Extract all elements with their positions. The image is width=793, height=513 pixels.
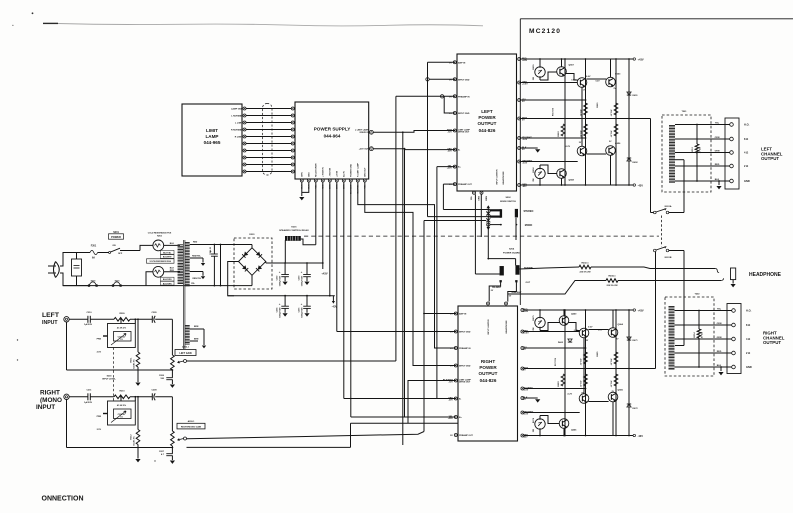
power supply board 044-964 <box>295 102 369 179</box>
capacitor C207 <box>166 453 172 455</box>
svg-text:Q660: Q660 <box>571 314 577 316</box>
filter capacitor C204 -rail <box>284 296 286 306</box>
svg-text:C204 47: C204 47 <box>118 335 127 338</box>
svg-text:D672: D672 <box>633 408 639 410</box>
limit lamp pin 8 <box>243 156 246 159</box>
fuse F201 <box>90 250 98 254</box>
right board pin PREAMP IN <box>454 347 457 350</box>
svg-text:+20 IN: +20 IN <box>337 170 339 177</box>
right board right pin ORN <box>521 330 524 333</box>
svg-text:R204-1: R204-1 <box>608 275 616 278</box>
capacitor C210 <box>87 316 89 323</box>
right gain pot A203-1 <box>171 431 175 446</box>
svg-text:.47 5W: .47 5W <box>610 358 613 366</box>
left power output board 044-826 <box>457 54 517 191</box>
wire R209 to C-coupling <box>130 318 152 320</box>
right diode D671 <box>627 337 631 340</box>
svg-text:MONO: MONO <box>525 224 533 227</box>
wire Q668-Q666 link <box>588 401 608 403</box>
wire -drive <box>521 161 578 163</box>
svg-text:C209 47: C209 47 <box>118 413 127 416</box>
svg-text:-0.6V: -0.6V <box>522 163 528 165</box>
svg-text:OUTPUT: OUTPUT <box>763 340 781 345</box>
svg-text:044-826: 044-826 <box>479 128 496 133</box>
svg-text:B-: B- <box>458 150 461 152</box>
svg-text:HEADPHONE: HEADPHONE <box>505 320 508 334</box>
wire right -drive <box>524 412 580 414</box>
svg-text:C206: C206 <box>159 375 165 377</box>
wire Q673 to Q668 column <box>583 338 585 394</box>
T201 tap GRN <box>675 152 730 154</box>
right input ground bus <box>187 446 351 448</box>
svg-text:+: + <box>279 270 281 274</box>
transformer low secondary winding <box>185 325 190 345</box>
svg-text:1μF/63V: 1μF/63V <box>84 324 93 326</box>
svg-text:Q658: Q658 <box>569 180 575 182</box>
wire right box input gnd <box>337 331 456 333</box>
wire relay coil left <box>284 240 286 263</box>
wire right feedback up to relay <box>655 252 657 369</box>
svg-text:.47 5W: .47 5W <box>580 358 583 366</box>
wire right box B+ <box>351 416 456 418</box>
power supply bottom pin 5 <box>328 179 331 182</box>
power supply bottom pin 9 <box>356 179 359 182</box>
svg-text:ONNECTION: ONNECTION <box>42 495 84 502</box>
transformer core <box>182 240 184 349</box>
power guard feed wires <box>475 273 499 275</box>
svg-text:S203: S203 <box>107 375 113 377</box>
wire +drive <box>521 82 578 84</box>
svg-text:-12V: -12V <box>448 382 453 384</box>
svg-text:POWER GND: POWER GND <box>351 163 353 177</box>
right terminal H.O. <box>732 309 736 313</box>
svg-text:OUT: OUT <box>526 282 531 284</box>
filter capacitor C203 +rail <box>306 263 308 274</box>
svg-text:41.9K 2%: 41.9K 2% <box>117 404 126 407</box>
svg-text:R683: R683 <box>558 381 560 387</box>
left terminal 2 Ω <box>730 164 734 168</box>
right diode D662 <box>568 339 572 342</box>
svg-text:POWER: POWER <box>479 365 497 370</box>
left board right pin RED <box>518 58 521 61</box>
right board pin PREAMP OUT <box>454 434 457 437</box>
svg-text:R681: R681 <box>597 351 599 357</box>
svg-text:R214: R214 <box>693 332 696 338</box>
svg-text:47 2W: 47 2W <box>701 331 704 338</box>
svg-text:RED: RED <box>193 241 198 243</box>
left board pin PREAMP OUT <box>453 183 456 186</box>
svg-text:0.5V: 0.5V <box>574 330 579 332</box>
svg-text:-0.2V: -0.2V <box>567 394 573 396</box>
svg-text:BRN: BRN <box>486 196 488 201</box>
relay mech dashed link <box>661 216 663 247</box>
transistor Q673 <box>579 328 589 338</box>
wire bus v2 <box>402 132 404 445</box>
svg-text:BLK/GRN: BLK/GRN <box>163 283 172 285</box>
svg-text:-43V: -43V <box>638 434 644 438</box>
power supply bottom pin 6 <box>335 179 338 182</box>
power supply left pin 6 <box>291 142 294 145</box>
wire right board input gnd branch <box>437 331 456 333</box>
svg-text:6000μF/50V: 6000μF/50V <box>280 275 282 286</box>
power supply bottom pin 1 <box>300 179 303 182</box>
svg-text:6000μF/50V: 6000μF/50V <box>302 275 304 286</box>
left -43V rail <box>521 184 633 186</box>
filter capacitor C202 +rail <box>284 263 286 274</box>
svg-text:A202-1: A202-1 <box>182 346 190 349</box>
left terminal GND <box>730 179 734 183</box>
mode switch mono contact bar <box>515 209 518 218</box>
left board pin INPUT GND <box>453 112 456 115</box>
svg-text:OUTPUT: OUTPUT <box>761 156 779 161</box>
wire bus v1 preamp-in left <box>396 95 455 97</box>
svg-text:MODE SWITCH: MODE SWITCH <box>500 201 516 203</box>
svg-text:D201: D201 <box>249 234 255 236</box>
left lower resistors <box>561 124 565 136</box>
svg-text:YEL: YEL <box>715 122 720 124</box>
svg-text:6A: 6A <box>92 257 95 260</box>
svg-text:-43V: -43V <box>522 185 527 188</box>
svg-text:T202: T202 <box>695 294 701 296</box>
transistor Q674 <box>577 78 587 88</box>
svg-text:+43V: +43V <box>638 309 644 313</box>
wire supply pin8 long <box>350 182 352 417</box>
right input jack <box>64 394 69 399</box>
wire cs2 to Q658 <box>540 165 557 174</box>
svg-text:C207: C207 <box>159 451 165 453</box>
left diode D652 <box>627 158 631 161</box>
right input level network box <box>108 401 136 425</box>
transistor Q667 <box>577 146 587 156</box>
svg-text:C210: C210 <box>86 312 92 314</box>
svg-text:-0.6V: -0.6V <box>522 139 528 141</box>
headphone resistor R204-1 <box>508 281 606 295</box>
svg-text:R661: R661 <box>597 102 599 108</box>
T201 tap BLK <box>675 180 730 182</box>
svg-text:S201: S201 <box>113 231 119 234</box>
right terminal 8 Ω <box>732 323 736 327</box>
capacitor C206 <box>166 377 172 379</box>
T202 winding <box>669 306 675 370</box>
mode switch contact chain <box>487 206 489 231</box>
wire right amp-in riser <box>423 221 425 432</box>
wire right -current sense <box>524 388 586 390</box>
power supply bottom pin 3 <box>314 179 317 182</box>
svg-text:8 Ω: 8 Ω <box>744 137 748 141</box>
svg-text:AC IN: AC IN <box>343 171 346 177</box>
svg-text:K201: K201 <box>291 226 297 228</box>
wire Q674-Q653 link <box>586 78 606 80</box>
svg-text:R675: R675 <box>533 315 535 321</box>
left board pin B+ <box>453 165 456 168</box>
svg-text:SPEAKER CONTROL RELAY: SPEAKER CONTROL RELAY <box>279 229 309 232</box>
power supply left pin 8 <box>291 156 294 159</box>
svg-text:0.5V: 0.5V <box>571 80 576 82</box>
svg-text:AMP IN: AMP IN <box>458 61 466 64</box>
svg-text:+ HIGH IN: + HIGH IN <box>323 167 325 177</box>
right gnd pin wire <box>524 397 538 399</box>
svg-text:GRN: GRN <box>479 196 481 201</box>
right lower resistors <box>561 374 565 386</box>
svg-text:D652: D652 <box>633 162 639 164</box>
svg-text:220 5% 2W: 220 5% 2W <box>606 285 618 287</box>
wire supply pin2 <box>302 182 309 192</box>
power supply right pin +20V OUT <box>370 147 374 151</box>
svg-text:INPUT GND: INPUT GND <box>458 113 470 115</box>
wire cs to Q657 <box>540 72 557 80</box>
right board top pins <box>487 302 490 305</box>
svg-text:RED/YEL: RED/YEL <box>192 278 201 280</box>
power supply bottom pin 8 <box>349 179 352 182</box>
limit lamp pin 6 <box>243 142 246 145</box>
scan artifact line <box>43 22 58 24</box>
left terminal H.O. <box>730 123 734 127</box>
bridge rectifier D201 dashed box <box>234 238 272 289</box>
wire lamp-to-supply 4 <box>246 129 291 131</box>
voltage selector jumpers <box>63 285 252 287</box>
svg-text:PREAMP IN: PREAMP IN <box>458 95 470 98</box>
wire left preamp-out down <box>443 183 455 185</box>
limit lamp pin 9 <box>243 163 246 166</box>
wire +current sense <box>521 99 586 101</box>
svg-text:Q657: Q657 <box>569 65 575 67</box>
svg-text:4 Ω: 4 Ω <box>746 337 750 341</box>
wire left feedback down <box>650 119 652 213</box>
transformer primary winding <box>178 244 184 284</box>
wire to gain pot <box>155 318 172 320</box>
svg-text:390: 390 <box>533 429 535 432</box>
left gain wiper <box>184 360 187 363</box>
wire lamp-to-supply 6 <box>246 143 291 145</box>
svg-text:INPUT GND: INPUT GND <box>459 366 471 368</box>
svg-text:LEFT: LEFT <box>481 109 493 114</box>
svg-text:GND: GND <box>746 365 752 369</box>
svg-text:R NORMAL: R NORMAL <box>231 128 243 131</box>
svg-text:-0.6V: -0.6V <box>523 390 529 392</box>
line filter box <box>72 259 82 276</box>
svg-text:C208: C208 <box>151 389 157 391</box>
power supply bottom pin 4 <box>321 179 324 182</box>
wire BRN taps <box>190 328 204 330</box>
wire bridge positive rail <box>265 262 267 264</box>
svg-text:YEL: YEL <box>471 195 473 200</box>
capacitor C211 <box>87 393 89 400</box>
svg-text:RIGHT: RIGHT <box>481 359 495 364</box>
limit lamp pin 5 <box>243 135 246 138</box>
right output ground <box>720 367 722 371</box>
svg-text:56.2K 2%: 56.2K 2% <box>134 436 136 445</box>
right -43V rail <box>524 435 633 437</box>
svg-text:A203-1: A203-1 <box>188 420 196 423</box>
svg-text:ORN: ORN <box>717 323 722 325</box>
svg-text:S204: S204 <box>509 247 515 250</box>
svg-text:GRN: GRN <box>302 172 304 177</box>
svg-text:POWER: POWER <box>111 235 121 239</box>
wire right +drive <box>524 331 580 333</box>
right diode D672 <box>627 404 631 407</box>
margin marks <box>32 12 34 14</box>
wire lamp-to-supply 5 <box>246 136 291 138</box>
right board pin AMP IN <box>454 312 457 315</box>
series capacitor C208 <box>151 393 153 400</box>
resistor R211 to ground <box>137 319 139 352</box>
svg-text:GRD OUT: GRD OUT <box>365 167 367 177</box>
svg-text:RED: RED <box>717 351 722 353</box>
right board pin B- <box>454 397 457 400</box>
svg-text:LAMP GND: LAMP GND <box>231 107 243 110</box>
svg-text:6000μF/40V: 6000μF/40V <box>279 307 282 318</box>
right board right pin GRN/WHT <box>521 411 524 414</box>
bridge diode diamond <box>239 248 266 275</box>
headphone jack <box>731 268 736 280</box>
wire Q667-Q656 link <box>586 153 606 155</box>
svg-text:GRN: GRN <box>717 337 722 339</box>
center tap RED/YEL upper <box>190 257 203 259</box>
wire Q673-Q664 link <box>588 329 608 331</box>
wire to R210 <box>90 396 114 398</box>
transistor Q665 <box>559 419 569 429</box>
thermistor R204 <box>153 266 164 277</box>
power supply left pin 4 <box>291 128 294 131</box>
right board pin INPUT GND <box>454 364 457 367</box>
thermistor R204 color tags <box>160 277 174 281</box>
mode switch wiper wire <box>490 224 501 226</box>
svg-text:H.O.: H.O. <box>744 123 750 127</box>
svg-text:L LIMIT: L LIMIT <box>235 122 243 124</box>
svg-text:+20V OUT: +20V OUT <box>359 149 370 151</box>
left gain pot A202-1 <box>171 355 175 370</box>
right board right pin YEL <box>521 347 524 350</box>
power guard contact squares <box>500 280 502 282</box>
svg-text:RED/YEL: RED/YEL <box>192 255 201 257</box>
svg-text:R676: R676 <box>533 417 535 423</box>
wire left input <box>69 318 88 320</box>
svg-text:-0.6V: -0.6V <box>523 414 529 416</box>
wire K201B to T202 primary <box>669 250 684 252</box>
svg-text:2.5V: 2.5V <box>97 352 102 354</box>
T201 tap RED <box>675 165 730 167</box>
left board right pin YEL/WHT <box>518 137 521 140</box>
wire +43V from supply <box>322 182 324 269</box>
ground at supply pin1 <box>299 197 304 200</box>
wire left input gnd2 jog <box>444 96 455 113</box>
right terminal GND <box>732 365 736 369</box>
svg-text:390: 390 <box>533 178 535 181</box>
left amp vertical rails <box>564 59 566 185</box>
svg-text:41.9K 2%: 41.9K 2% <box>117 326 126 329</box>
svg-text:+: + <box>301 302 303 306</box>
svg-text:VOLTS-RESISTANCE R204: VOLTS-RESISTANCE R204 <box>150 260 171 263</box>
left board right pin ORN <box>518 81 521 84</box>
wire RED secondary <box>190 244 252 246</box>
svg-text:0.2V: 0.2V <box>598 330 603 332</box>
wire K201A to T201 primary <box>669 212 684 214</box>
current source Q659 <box>535 317 545 327</box>
wire to right gain pot <box>155 396 172 398</box>
svg-text:LEFT: LEFT <box>42 312 60 319</box>
connector on preamp-in wire <box>440 95 443 98</box>
svg-text:.47 5W: .47 5W <box>580 130 583 138</box>
wire relay drive <box>315 182 317 245</box>
limit lamp pin 2 <box>243 114 246 117</box>
wire bus v6 B+ left box <box>437 166 455 168</box>
thermistor R203 color tags <box>160 250 174 254</box>
left board pin AMP IN <box>453 61 456 64</box>
svg-text:+20V: +20V <box>447 168 453 170</box>
wire relay coil right to relay drive <box>301 239 316 245</box>
T202 internal resistor <box>698 311 700 330</box>
right terminal strip <box>727 304 741 374</box>
svg-text:D651: D651 <box>633 95 639 97</box>
svg-text:R211: R211 <box>130 357 132 363</box>
wire to R209 <box>90 318 114 320</box>
svg-text:RIGHT/MONO GAIN: RIGHT/MONO GAIN <box>181 426 202 429</box>
right power output board 044-826 <box>458 306 518 441</box>
svg-text:R663: R663 <box>558 131 560 137</box>
svg-text:R209: R209 <box>119 313 125 315</box>
power supply left pin 2 <box>291 114 294 117</box>
wire -current sense <box>521 137 586 139</box>
wire -43V stub <box>332 296 334 301</box>
ground low secondary <box>202 346 206 349</box>
left output transformer T201 dashed box <box>662 115 711 192</box>
wire Q657 out <box>566 74 578 81</box>
input level gang dashed <box>112 348 114 402</box>
resistor R209 <box>114 318 130 322</box>
wire bottom rail riser <box>146 272 153 286</box>
svg-text:POWER SUPPLY: POWER SUPPLY <box>314 127 351 132</box>
svg-text:BLK: BLK <box>170 267 175 269</box>
svg-text:MC2120: MC2120 <box>529 28 561 35</box>
wire lamp-to-supply 1 <box>246 108 291 110</box>
svg-text:OUTPUT: OUTPUT <box>479 371 498 376</box>
left board pin LIMIT LAMP <box>453 129 456 132</box>
power supply right pin L LIMIT LAMP DRIVE IN <box>370 130 374 134</box>
svg-text:GND: GND <box>744 179 750 183</box>
T202 tap ORN <box>675 324 732 326</box>
power supply bottom pin 10 <box>363 179 366 182</box>
wire supply pin1 gnd <box>301 182 303 196</box>
svg-text:STEREO: STEREO <box>524 210 534 213</box>
right amp vertical rails <box>564 310 566 436</box>
svg-text:044-826: 044-826 <box>480 378 497 383</box>
svg-text:PREAMP OUT: PREAMP OUT <box>458 183 473 186</box>
wire supply +20V to left box B- <box>373 148 404 150</box>
svg-text:.47 5W: .47 5W <box>610 380 613 388</box>
wire supply pin7 long <box>343 182 345 399</box>
svg-text:S202: S202 <box>505 197 511 199</box>
wire fuse to switch <box>98 252 109 254</box>
svg-text:4 Ω: 4 Ω <box>744 151 748 155</box>
power switch S201 <box>109 252 111 254</box>
wire Q660 out <box>568 323 579 331</box>
power supply left pin 3 <box>291 121 294 124</box>
feedback wire left <box>521 118 651 120</box>
svg-text:GRN: GRN <box>715 150 720 152</box>
svg-text:INPUT: INPUT <box>36 404 55 411</box>
power supply bottom pin 2 <box>307 179 310 182</box>
svg-text:+43V: +43V <box>321 272 327 276</box>
left board pin B- <box>453 148 456 151</box>
svg-text:Q656: Q656 <box>615 143 621 145</box>
left +43V rail <box>521 58 633 60</box>
svg-text:.47 5W: .47 5W <box>610 130 613 138</box>
svg-text:.47 5W: .47 5W <box>610 109 613 117</box>
right board right pin YEL/WHT <box>521 387 524 390</box>
wire supply pin9 route <box>358 182 456 348</box>
headphone wire bottom <box>618 280 721 282</box>
limit lamp pin 1 <box>243 107 246 110</box>
